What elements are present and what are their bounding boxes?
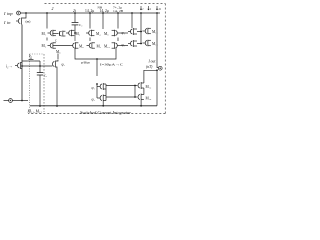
- node dot: [102, 105, 104, 107]
- NMOS N1: [97, 83, 106, 90]
- wire: [57, 54, 59, 60]
- node dot: [134, 85, 136, 87]
- svg-text:C₂: C₂: [79, 23, 82, 27]
- wire output vertical: [156, 13, 158, 65]
- capacitor C2: [72, 23, 79, 25]
- node dot rail x90: [89, 12, 91, 14]
- svg-text:inp: inp: [7, 11, 13, 16]
- svg-text:M₄: M₄: [96, 32, 101, 36]
- wire left long vertical: [21, 25, 23, 101]
- svg-text:M₁₂: M₁₂: [146, 85, 152, 89]
- transistor M1: [48, 30, 56, 37]
- node dot: [96, 58, 98, 60]
- label i arrow right: [140, 6, 158, 10]
- wire n3 drain up to output: [144, 70, 157, 83]
- svg-text:M₂: M₂: [42, 44, 47, 48]
- wire n3 n4 chain: [143, 88, 145, 95]
- switch S2: [56, 31, 65, 37]
- transistor M10 facing left row2: [112, 42, 120, 49]
- transistor M3: [66, 30, 74, 37]
- svg-text:φ₁: φ₁: [62, 63, 65, 67]
- svg-text:(m): (m): [26, 20, 31, 24]
- node dot: [134, 96, 136, 98]
- transistor M2: [48, 42, 56, 49]
- svg-text:M₁: M₁: [42, 32, 46, 36]
- wire gate node horizontal: [22, 65, 50, 67]
- svg-text:M₁₀: M₁₀: [104, 45, 110, 49]
- wire gate tie: [140, 13, 142, 44]
- wire n4 source down: [140, 101, 142, 106]
- wire top rail: [20, 12, 160, 14]
- wire n1 drain right long: [106, 85, 135, 87]
- wire: [131, 13, 133, 28]
- svg-text:2: 2: [52, 7, 54, 11]
- svg-text:C₁: C₁: [44, 74, 47, 78]
- svg-text:M₁₃: M₁₃: [152, 42, 158, 46]
- svg-text:NB: NB: [98, 6, 103, 10]
- switch T1: [128, 28, 137, 35]
- svg-text:i: i: [143, 7, 144, 11]
- wire: [46, 13, 48, 29]
- svg-text:M₈: M₈: [104, 32, 109, 36]
- wire M5 down: [56, 69, 58, 107]
- wire gate backbone: [96, 84, 98, 98]
- svg-text:Switched Current Integrator: Switched Current Integrator: [80, 110, 131, 115]
- wire m8 to sw1: [120, 32, 128, 34]
- wire to terminal: [157, 65, 158, 68]
- svg-text:i₁→: i₁→: [6, 64, 13, 69]
- transistor M8 facing left: [112, 30, 120, 37]
- wire row2 out: [53, 45, 70, 47]
- terminal Iout: [158, 66, 162, 70]
- node dot rail x103: [102, 12, 104, 14]
- inner dashed divider: [43, 54, 45, 112]
- node dot: [140, 105, 142, 107]
- svg-text:(nT): (nT): [146, 65, 153, 69]
- transistor M10 on left wire: [15, 62, 22, 69]
- svg-text:C: C: [55, 39, 57, 43]
- node dot rail x132: [131, 12, 133, 14]
- terminal bottom left: [4, 100, 9, 102]
- node dot: [56, 105, 58, 107]
- wire switch leads: [22, 60, 40, 62]
- transistor M6: [70, 42, 78, 49]
- node dot: [39, 65, 41, 67]
- node dot: [21, 65, 23, 67]
- capacitor C1: [37, 73, 43, 75]
- outer dashed box bottom border: [28, 113, 165, 115]
- wire cap bottom vertical: [39, 75, 41, 106]
- svg-text:2i: 2i: [73, 9, 76, 13]
- transistor M5: [50, 60, 58, 69]
- transistor M7: [87, 42, 95, 49]
- node dot rail x157: [156, 12, 158, 14]
- svg-text:φ₁: φ₁: [29, 54, 32, 58]
- svg-text:i: i: [150, 7, 151, 11]
- NMOS N3: [135, 82, 144, 89]
- svg-text:M₅: M₅: [56, 50, 61, 54]
- svg-text:M₃: M₃: [76, 32, 81, 36]
- node dot rail x141: [140, 12, 142, 14]
- node dot: [21, 100, 23, 102]
- wire: [117, 13, 119, 29]
- node dot input rail: [25, 12, 27, 14]
- wire mid col down: [75, 48, 97, 59]
- transistor M13: [143, 40, 151, 47]
- terminal Iinp: [17, 11, 21, 15]
- inner dotted box left border: [29, 54, 31, 113]
- wire n1 n2 chain: [105, 89, 107, 96]
- wire: [74, 25, 76, 33]
- wire interrow stubs: [90, 38, 118, 42]
- node dot rail x75: [74, 12, 76, 14]
- wire n2 source down: [102, 102, 104, 106]
- wire from x116: [97, 48, 116, 76]
- wire row2 to sw: [120, 45, 128, 47]
- transistor M11: [143, 28, 151, 35]
- wire right gate tie: [134, 86, 136, 98]
- wire cap top vertical: [39, 61, 41, 72]
- wire: [74, 13, 76, 22]
- NMOS N4: [135, 94, 144, 101]
- wire: [102, 13, 104, 29]
- node dot: [96, 83, 98, 85]
- switch S1 horizontal: [27, 57, 35, 61]
- outer dashed box right border: [164, 4, 166, 114]
- node dot: [140, 43, 142, 45]
- NMOS N2: [97, 95, 106, 102]
- wire between rows: [46, 38, 48, 41]
- wire sw2 out: [137, 43, 142, 45]
- svg-text:I=30μA→C: I=30μA→C: [100, 63, 123, 67]
- svg-text:M₆: M₆: [79, 45, 84, 49]
- svg-text:I out: I out: [148, 60, 157, 64]
- transistor M4: [86, 30, 94, 37]
- switch T2: [128, 40, 137, 47]
- wire input stub: [25, 13, 27, 16]
- node dot: [39, 105, 41, 107]
- node dot: [156, 69, 158, 71]
- outer dashed box top border: [45, 3, 166, 5]
- wire: [89, 13, 91, 29]
- wire bottom left: [12, 100, 28, 102]
- transistor M9 (input): [16, 16, 26, 25]
- wire: [52, 33, 56, 35]
- svg-text:M₇: M₇: [97, 45, 102, 49]
- svg-text:M₁₄: M₁₄: [146, 97, 152, 101]
- node dot rail x47: [46, 12, 48, 14]
- node dot rail x118: [117, 12, 119, 14]
- svg-text:2i: 2i: [159, 7, 162, 11]
- svg-text:φ/Bias: φ/Bias: [81, 61, 91, 65]
- inner dotted box top border: [30, 53, 45, 55]
- node dot: [140, 31, 142, 33]
- wire sw1 out: [137, 31, 142, 33]
- wire rail to terminal area: [156, 70, 158, 106]
- bottom rail: [30, 105, 157, 107]
- wire n2 lower long: [106, 96, 135, 98]
